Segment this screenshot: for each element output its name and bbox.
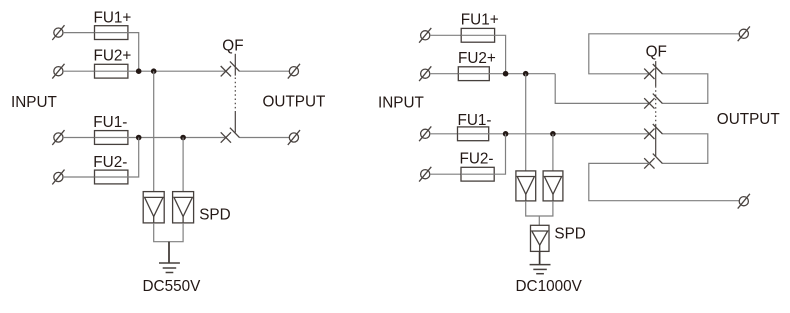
breaker QF right pole 3 contact X bbox=[644, 129, 654, 139]
breaker QF right pole 2 contact X bbox=[644, 98, 654, 108]
svg-text:FU2+: FU2+ bbox=[458, 50, 496, 67]
wire through fuse FU1+ bbox=[95, 32, 128, 34]
terminal input X2 (row FU2+) bbox=[52, 64, 64, 79]
surge arrester SPD1 right bbox=[516, 171, 536, 201]
wire input row3 to fuse FU1- bbox=[63, 137, 95, 139]
wire negative bus right to pole 3 bbox=[458, 133, 649, 135]
svg-text:SPD: SPD bbox=[554, 226, 585, 243]
terminal input X3r (row FU1-) bbox=[419, 126, 431, 141]
wire SPD1 positive leg bbox=[153, 71, 155, 191]
breaker QF right pole 1 blade bbox=[653, 64, 663, 74]
wire ground stem left bbox=[168, 242, 170, 263]
terminal output X6 bbox=[288, 130, 300, 145]
wire fuse FU1+ out, drop to positive bus bbox=[128, 33, 139, 72]
surge arrester SPD2 right bbox=[543, 171, 563, 201]
breaker QF right pole 2 blade bbox=[653, 94, 663, 104]
node junction FU1+/bus bbox=[136, 68, 142, 74]
svg-text:OUTPUT: OUTPUT bbox=[717, 111, 780, 128]
terminal output X6r bbox=[738, 194, 750, 209]
wire top output run bbox=[589, 34, 740, 74]
wire SPD1 right positive leg bbox=[525, 74, 527, 171]
fuse FU1+ right bbox=[461, 28, 494, 42]
node junction SPD2/bus bbox=[180, 135, 186, 141]
breaker QF linkage solid lower bbox=[234, 111, 236, 133]
breaker QF pole 1 blade bbox=[230, 61, 240, 71]
wire input row4 to fuse FU2- bbox=[63, 176, 95, 178]
wire bus to SPD3 bbox=[538, 216, 540, 225]
fuse FU2- bbox=[95, 170, 128, 184]
fuse FU2+ right bbox=[458, 67, 489, 81]
terminal input X3 (row FU1-) bbox=[52, 130, 64, 145]
node junction SPD1/bus bbox=[151, 68, 157, 74]
svg-text:DC1000V: DC1000V bbox=[516, 278, 583, 295]
svg-text:FU2-: FU2- bbox=[460, 151, 494, 168]
terminal input X4r (row FU2-) bbox=[419, 167, 431, 182]
terminal output X5 bbox=[288, 64, 300, 79]
svg-text:FU1+: FU1+ bbox=[94, 10, 132, 27]
svg-text:QF: QF bbox=[222, 38, 243, 55]
surge arrester SPD3 bbox=[531, 225, 550, 251]
wire through fuse FU1+ right bbox=[461, 34, 494, 36]
breaker QF pole 2 blade bbox=[230, 128, 240, 138]
fuse FU1- right bbox=[458, 127, 489, 141]
terminal input X4 (row FU2-) bbox=[52, 170, 64, 185]
svg-text:OUTPUT: OUTPUT bbox=[263, 94, 326, 111]
wire positive feed down to pole 2 bbox=[555, 74, 649, 104]
wire fuse FU2- out, rise to negative bus bbox=[95, 138, 139, 178]
surge arrester SPD1 bbox=[143, 192, 164, 223]
breaker QF pole 1 contact X bbox=[221, 66, 231, 76]
node junction FU1+/bus right bbox=[503, 71, 509, 77]
terminal output X5r bbox=[738, 26, 750, 41]
breaker QF right pole 4 blade bbox=[653, 154, 663, 164]
wire pole1-pole2 series link bbox=[663, 74, 708, 104]
breaker QF right linkage solid lower bbox=[655, 125, 657, 157]
breaker QF linkage dotted bbox=[234, 78, 236, 112]
wire ground stem right bbox=[539, 251, 541, 264]
svg-text:INPUT: INPUT bbox=[11, 94, 57, 111]
ground left bbox=[159, 263, 180, 273]
wire fuse FU2- right out, rise to negative bus bbox=[461, 134, 506, 174]
wire input row2 to fuse FU2+ bbox=[63, 70, 95, 72]
wire SPD2 negative leg bbox=[182, 138, 184, 192]
breaker QF right pole 3 blade bbox=[653, 124, 663, 134]
wire negative bus to breaker pole 2 bbox=[95, 137, 227, 139]
svg-text:FU2-: FU2- bbox=[93, 154, 127, 171]
wire SPD2 right negative leg bbox=[552, 134, 554, 171]
svg-text:DC550V: DC550V bbox=[143, 278, 202, 295]
wire input row2r to fuse FU2+ bbox=[430, 73, 459, 75]
breaker QF right linkage solid upper bbox=[655, 61, 657, 86]
svg-text:FU2+: FU2+ bbox=[94, 48, 132, 65]
svg-text:FU1-: FU1- bbox=[93, 114, 127, 131]
wire pole 4 to bottom output run bbox=[589, 163, 740, 200]
wire input row1 to fuse FU1+ bbox=[63, 32, 95, 34]
ground right bbox=[530, 265, 551, 274]
breaker QF right linkage dotted bbox=[655, 86, 657, 125]
fuse FU2+ bbox=[95, 64, 128, 78]
wire SPD join bus bbox=[154, 223, 183, 242]
svg-text:FU1+: FU1+ bbox=[461, 12, 499, 29]
node junction SPD1/bus right bbox=[523, 71, 529, 77]
node junction FU2-/bus right bbox=[503, 131, 509, 137]
breaker QF pole 2 contact X bbox=[221, 132, 231, 142]
wire SPD join bus right bbox=[526, 201, 553, 216]
wire positive bus to breaker pole 1 bbox=[95, 70, 227, 72]
terminal input X2r (row FU2+) bbox=[419, 66, 431, 81]
terminal input X1 (row FU1+) bbox=[52, 25, 64, 40]
node junction SPD2/bus right bbox=[550, 131, 556, 137]
wire input row1r to fuse FU1+ bbox=[430, 34, 461, 36]
svg-text:FU1-: FU1- bbox=[458, 112, 492, 129]
fuse FU1- bbox=[95, 131, 128, 145]
svg-text:INPUT: INPUT bbox=[378, 94, 424, 111]
node junction FU2-/bus bbox=[136, 135, 142, 141]
svg-text:QF: QF bbox=[646, 43, 667, 60]
fuse FU1+ bbox=[95, 26, 128, 40]
wire input row3r to fuse FU1- bbox=[430, 133, 459, 135]
wire pole 2 to output terminal bbox=[240, 137, 290, 139]
wire pole 1 to output terminal bbox=[240, 70, 290, 72]
wire fuse FU1+ right out, drop to positive bus bbox=[495, 35, 506, 73]
surge arrester SPD2 bbox=[173, 192, 194, 223]
wire positive bus right, to drop point bbox=[458, 73, 555, 75]
terminal input X1r (row FU1+) bbox=[419, 28, 431, 43]
breaker QF linkage solid upper bbox=[234, 54, 236, 76]
svg-text:SPD: SPD bbox=[199, 206, 230, 223]
wire pole3-pole4 series link bbox=[663, 134, 708, 164]
breaker QF right pole 1 contact X bbox=[644, 69, 654, 79]
breaker QF right pole 4 contact X bbox=[644, 158, 654, 168]
fuse FU2- right bbox=[461, 167, 494, 181]
wire input row4r to fuse FU2- bbox=[430, 173, 461, 175]
